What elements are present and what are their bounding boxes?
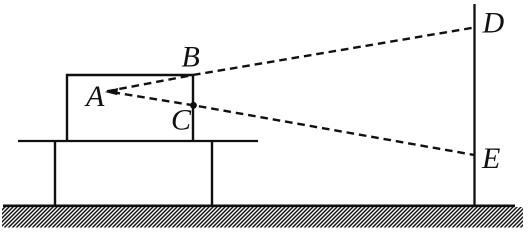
table top: [18, 140, 258, 142]
arrowhead at A: [105, 88, 118, 95]
table left leg: [54, 141, 56, 206]
dashed ray A-B-D: [107, 28, 475, 92]
table right leg: [211, 141, 213, 206]
ground hatched band: [2, 207, 523, 228]
svg-text:C: C: [171, 104, 192, 137]
svg-text:B: B: [182, 41, 200, 74]
point C dot: [190, 102, 197, 109]
box on table: [67, 75, 193, 141]
ground top line: [3, 205, 515, 208]
svg-text:E: E: [481, 142, 500, 175]
wall (vertical screen line): [473, 4, 475, 207]
dashed ray A-C-E: [113, 92, 475, 155]
svg-text:A: A: [84, 80, 105, 113]
svg-text:D: D: [482, 7, 505, 40]
